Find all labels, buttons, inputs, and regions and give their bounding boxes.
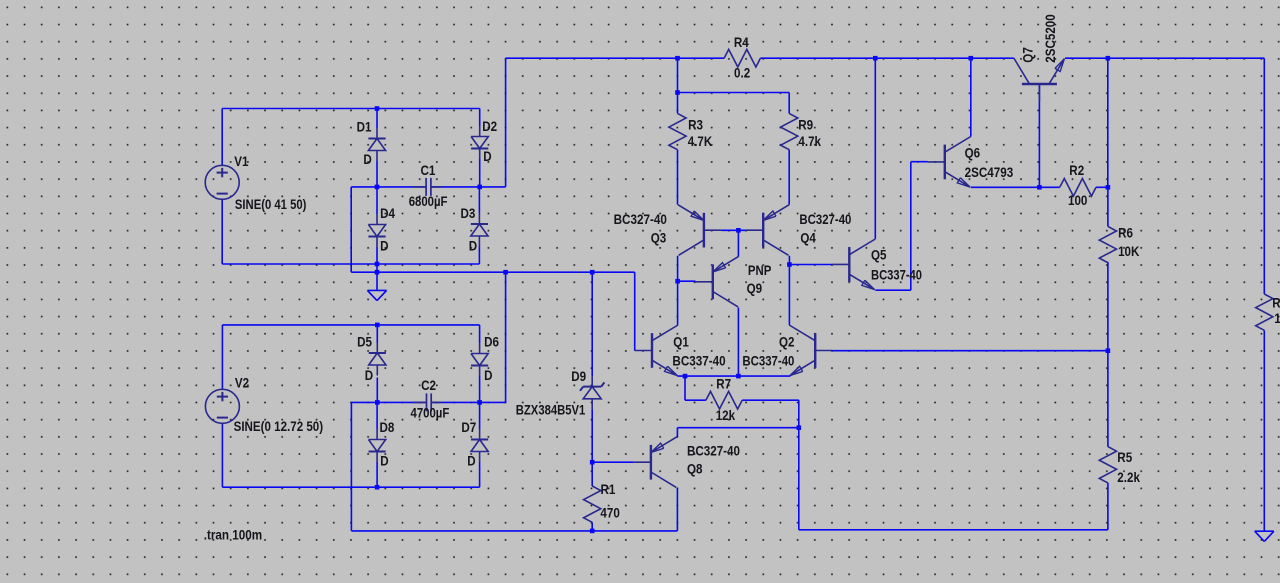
wire <box>479 462 481 487</box>
resistor R1 <box>584 486 601 522</box>
resistor R2 <box>1060 179 1096 197</box>
junction <box>477 400 482 405</box>
diode D4 <box>376 214 378 225</box>
svg-text:Q7: Q7 <box>1020 47 1036 63</box>
svg-text:10K: 10K <box>1118 243 1139 259</box>
svg-text:D: D <box>380 452 388 468</box>
svg-text:D3: D3 <box>461 205 476 221</box>
junction <box>375 400 380 405</box>
wire <box>1096 186 1108 188</box>
wire <box>788 256 790 325</box>
junction <box>675 90 680 95</box>
wire <box>676 428 678 437</box>
svg-text:0.2: 0.2 <box>734 65 750 81</box>
wire <box>479 376 481 402</box>
junction <box>477 185 482 190</box>
wire <box>479 325 481 343</box>
svg-text:R2: R2 <box>1069 162 1084 178</box>
wire <box>1107 483 1109 530</box>
junction <box>375 270 380 275</box>
svg-text:Q2: Q2 <box>779 333 795 349</box>
svg-text:PNP: PNP <box>748 262 771 278</box>
svg-text:2SC4793: 2SC4793 <box>965 164 1014 180</box>
diode D6 <box>479 343 481 354</box>
svg-text:D2: D2 <box>482 118 497 134</box>
junction <box>1106 185 1111 190</box>
junction <box>1106 56 1111 61</box>
wire <box>376 247 378 272</box>
wire <box>376 161 378 187</box>
svg-text:R4: R4 <box>734 34 749 50</box>
wire <box>221 325 223 389</box>
wire <box>1107 58 1109 187</box>
svg-text:D: D <box>380 237 388 253</box>
wire <box>591 522 593 531</box>
wire <box>351 401 426 403</box>
junction <box>1037 185 1042 190</box>
wire <box>479 402 481 429</box>
resistor R6 <box>1099 226 1116 262</box>
wire <box>505 272 507 402</box>
wire <box>1107 187 1109 226</box>
wire <box>222 486 479 488</box>
svg-text:BZX384B5V1: BZX384B5V1 <box>516 401 586 417</box>
wire <box>676 488 678 531</box>
wire <box>351 271 635 273</box>
transistor Q8 <box>650 445 652 480</box>
wire <box>788 150 790 205</box>
junction <box>375 323 380 328</box>
wire <box>479 159 481 187</box>
svg-text:D: D <box>484 367 492 383</box>
junction <box>736 374 741 379</box>
svg-text:1: 1 <box>1274 310 1280 326</box>
wire <box>677 93 679 114</box>
svg-text:D4: D4 <box>380 205 395 221</box>
wire <box>222 263 479 265</box>
wire <box>721 229 746 231</box>
wire <box>737 308 739 377</box>
wire <box>678 92 790 94</box>
svg-text:4.7K: 4.7K <box>688 133 712 149</box>
wire <box>222 324 479 326</box>
svg-text:R9: R9 <box>798 116 813 132</box>
svg-text:C1: C1 <box>421 162 436 178</box>
junction <box>873 56 878 61</box>
junction <box>375 185 380 190</box>
svg-text:V2: V2 <box>235 374 249 390</box>
svg-text:100: 100 <box>1068 192 1088 208</box>
svg-text:BC327-40: BC327-40 <box>687 443 740 459</box>
svg-text:D: D <box>365 367 373 383</box>
resistor R4 <box>724 49 760 67</box>
wire <box>478 187 480 214</box>
svg-text:D9: D9 <box>571 368 586 384</box>
wire <box>1065 57 1264 59</box>
wire <box>376 378 378 403</box>
wire <box>1263 330 1265 531</box>
svg-text:C2: C2 <box>421 377 436 393</box>
wire <box>833 350 1108 352</box>
svg-text:R3: R3 <box>688 117 703 133</box>
svg-text:4700µF: 4700µF <box>411 404 450 420</box>
voltage source V2 <box>205 389 239 423</box>
svg-text:Q8: Q8 <box>687 461 703 477</box>
wire <box>350 187 352 272</box>
svg-text:470: 470 <box>600 505 620 521</box>
wire <box>789 264 832 266</box>
wire <box>911 161 928 163</box>
resistor R9 <box>781 113 798 149</box>
wire <box>221 109 223 166</box>
wire <box>221 199 223 264</box>
wire <box>479 109 481 127</box>
zener diode D9 <box>591 376 593 387</box>
wire <box>685 399 706 401</box>
wire <box>677 150 679 205</box>
ground <box>1255 530 1274 532</box>
svg-text:D7: D7 <box>461 419 476 435</box>
transistor Q3 <box>703 213 705 248</box>
diode D8 <box>376 429 378 440</box>
wire <box>221 423 223 487</box>
wire <box>788 93 790 114</box>
svg-text:Q5: Q5 <box>871 247 887 263</box>
wire <box>376 402 378 429</box>
wire <box>350 402 352 531</box>
wire <box>591 272 593 376</box>
junction <box>375 262 380 267</box>
svg-text:6800µF: 6800µF <box>409 193 448 209</box>
wire <box>376 462 378 487</box>
wire <box>431 186 506 188</box>
wire <box>971 186 1060 188</box>
wire <box>742 399 799 401</box>
svg-text:.tran 100m: .tran 100m <box>204 526 263 542</box>
diode D7 <box>479 429 481 440</box>
wire <box>376 325 378 343</box>
wire <box>478 247 480 265</box>
transistor Q4 <box>762 213 764 248</box>
junction <box>375 106 380 111</box>
svg-text:Q6: Q6 <box>965 145 981 161</box>
junction <box>675 56 680 61</box>
svg-text:SINE(0 41 50): SINE(0 41 50) <box>235 196 307 212</box>
junction <box>590 270 595 275</box>
diode D3 <box>478 214 480 225</box>
svg-text:D: D <box>363 151 371 167</box>
wire <box>591 409 593 462</box>
junction <box>675 279 680 284</box>
svg-text:Q9: Q9 <box>747 280 763 296</box>
wire <box>222 108 480 110</box>
wire <box>591 462 593 486</box>
transistor Q2 <box>814 333 816 368</box>
svg-text:2.2k: 2.2k <box>1117 469 1140 485</box>
junction <box>797 425 802 430</box>
diode D5 <box>376 343 378 354</box>
transistor Q6 <box>944 145 946 180</box>
svg-text:2SC5200: 2SC5200 <box>1042 14 1058 63</box>
wire <box>970 58 972 136</box>
wire <box>1107 351 1109 447</box>
wire <box>677 375 790 377</box>
resistor R7 <box>706 391 742 409</box>
transistor Q1 <box>651 333 653 368</box>
wire <box>592 461 633 463</box>
capacitor C2 <box>413 401 427 403</box>
svg-text:SINE(0 12.72 50): SINE(0 12.72 50) <box>234 418 324 434</box>
wire <box>798 428 800 530</box>
wire <box>351 186 426 188</box>
wire <box>678 280 696 282</box>
capacitor C1 <box>413 186 427 188</box>
wire <box>677 58 679 92</box>
junction <box>590 529 595 534</box>
wire <box>634 272 636 351</box>
svg-text:R1: R1 <box>601 481 616 497</box>
junction <box>969 56 974 61</box>
wire <box>505 58 507 187</box>
wire <box>1107 262 1109 351</box>
junction <box>683 374 688 379</box>
transistor Q9 <box>712 264 714 299</box>
svg-text:D: D <box>467 452 475 468</box>
wire <box>874 58 876 239</box>
svg-text:Q1: Q1 <box>673 333 689 349</box>
wire <box>1263 58 1265 294</box>
junction <box>503 270 508 275</box>
svg-text:R7: R7 <box>716 376 731 392</box>
wire <box>677 256 679 325</box>
junction <box>787 262 792 267</box>
svg-text:Q3: Q3 <box>651 230 667 246</box>
wire <box>376 109 378 129</box>
svg-text:BC337-40: BC337-40 <box>742 352 794 368</box>
svg-text:V1: V1 <box>234 153 248 169</box>
wire <box>506 57 724 59</box>
svg-text:R5: R5 <box>1117 449 1132 465</box>
junction <box>375 485 380 490</box>
svg-text:D5: D5 <box>357 334 372 350</box>
wire <box>1038 84 1040 187</box>
wire <box>684 376 686 400</box>
svg-text:BC337-40: BC337-40 <box>672 352 725 368</box>
transistor Q7 <box>1022 83 1057 85</box>
svg-text:D1: D1 <box>357 119 372 135</box>
junction <box>590 460 595 465</box>
wire <box>910 162 912 291</box>
wire <box>376 272 378 290</box>
svg-text:12k: 12k <box>716 407 736 423</box>
wire <box>351 530 677 532</box>
svg-text:R: R <box>1272 294 1280 310</box>
svg-text:D6: D6 <box>484 334 499 350</box>
wire <box>431 401 505 403</box>
resistor R3 <box>669 113 686 149</box>
wire <box>737 230 739 256</box>
voltage source V1 <box>205 165 239 199</box>
wire <box>760 57 1013 59</box>
wire <box>376 187 378 214</box>
junction <box>1106 348 1111 353</box>
transistor Q5 <box>848 247 850 282</box>
svg-text:BC327-40: BC327-40 <box>614 211 667 227</box>
svg-text:Q4: Q4 <box>800 229 816 245</box>
wire <box>798 400 800 428</box>
svg-text:D: D <box>469 237 477 253</box>
svg-text:D8: D8 <box>380 419 395 435</box>
diode D1 <box>376 128 378 139</box>
svg-text:R6: R6 <box>1118 225 1133 241</box>
diode D2 <box>479 126 481 137</box>
svg-text:4.7k: 4.7k <box>798 133 821 149</box>
resistor R8 <box>1256 294 1273 330</box>
svg-text:BC337-40: BC337-40 <box>871 267 922 283</box>
svg-text:BC327-40: BC327-40 <box>799 211 851 227</box>
svg-text:D: D <box>483 148 491 164</box>
wire <box>677 427 798 429</box>
ground <box>367 289 386 291</box>
junction <box>736 228 741 233</box>
wire <box>799 529 1108 531</box>
resistor R5 <box>1099 447 1116 483</box>
wire <box>875 289 911 291</box>
